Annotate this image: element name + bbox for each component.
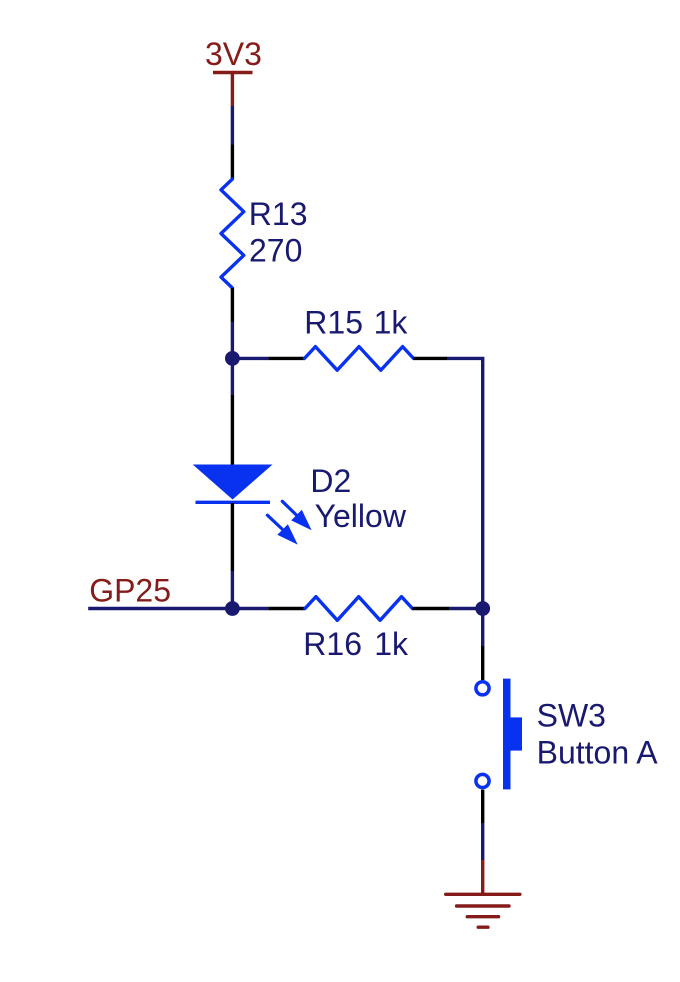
node B junction dot (225, 601, 240, 616)
wire R16 to node C (black) (412, 607, 449, 610)
switch SW3 actuator bar (503, 679, 511, 790)
ground bar 2 (457, 904, 509, 907)
svg-text:270: 270 (249, 233, 302, 269)
LED D2 triangle (193, 465, 273, 500)
LED light arrow 2 (267, 515, 297, 544)
switch SW3 pin 1 contact circle (476, 682, 489, 695)
ground stem (dark red) (481, 860, 484, 894)
resistor R16 (305, 597, 412, 621)
wire GP25 (navy) (88, 607, 232, 610)
wire node B to R16 (navy stub) (232, 607, 268, 610)
wire node C down (navy) (481, 609, 484, 647)
wire switch pin 2 down (black) (481, 790, 484, 823)
svg-text:GP25: GP25 (89, 573, 171, 609)
wire pin stub to node C (navy) (449, 607, 483, 610)
wire node A to LED anode (navy stub) (231, 358, 234, 395)
wire pin stub to ground (navy) (481, 823, 484, 860)
node C junction dot (475, 601, 490, 616)
svg-text:D2: D2 (310, 463, 351, 499)
ground bar 1 (446, 893, 520, 896)
svg-text:1k: 1k (374, 626, 409, 662)
wire to switch pin 1 (black) (481, 646, 484, 680)
wire corner R15 to right rail (navy) (447, 358, 483, 608)
svg-text:SW3: SW3 (537, 698, 606, 734)
power symbol 3V3 stem (231, 73, 234, 107)
wire node A to R15 (navy stub) (232, 357, 268, 360)
switch SW3 pin 2 contact circle (476, 774, 489, 787)
svg-text:R15: R15 (304, 305, 363, 341)
LED light arrow 1 (282, 501, 311, 530)
wire pin stub above node B (navy) (231, 571, 234, 609)
wire to R15 (black) (268, 357, 304, 360)
wire to R16 (black) (268, 607, 305, 610)
svg-text:R16: R16 (303, 626, 362, 662)
ground bar 4 (478, 926, 488, 929)
wire to LED anode (black) (231, 395, 234, 465)
svg-text:3V3: 3V3 (205, 36, 262, 72)
svg-text:1k: 1k (374, 305, 409, 341)
wire pin stub above node A (navy) (231, 322, 234, 358)
resistor R13 (221, 179, 244, 288)
switch SW3 button cap (511, 717, 523, 750)
svg-text:Button A: Button A (537, 735, 659, 771)
power symbol 3V3 bar (213, 71, 253, 74)
wire LED cathode (black) (231, 503, 234, 571)
svg-text:Yellow: Yellow (315, 498, 407, 534)
LED D2 cathode bar (196, 501, 271, 504)
node A junction dot (225, 351, 240, 366)
wire pin stub 3V3 to R13 (navy) (231, 106, 234, 145)
ground bar 3 (467, 915, 498, 918)
wire 3V3 net to R13 (black) (231, 145, 234, 180)
wire R13 to node A (black) (231, 288, 234, 322)
resistor R15 (305, 347, 414, 371)
wire R15 right (black) (414, 357, 448, 360)
svg-text:R13: R13 (249, 196, 308, 232)
